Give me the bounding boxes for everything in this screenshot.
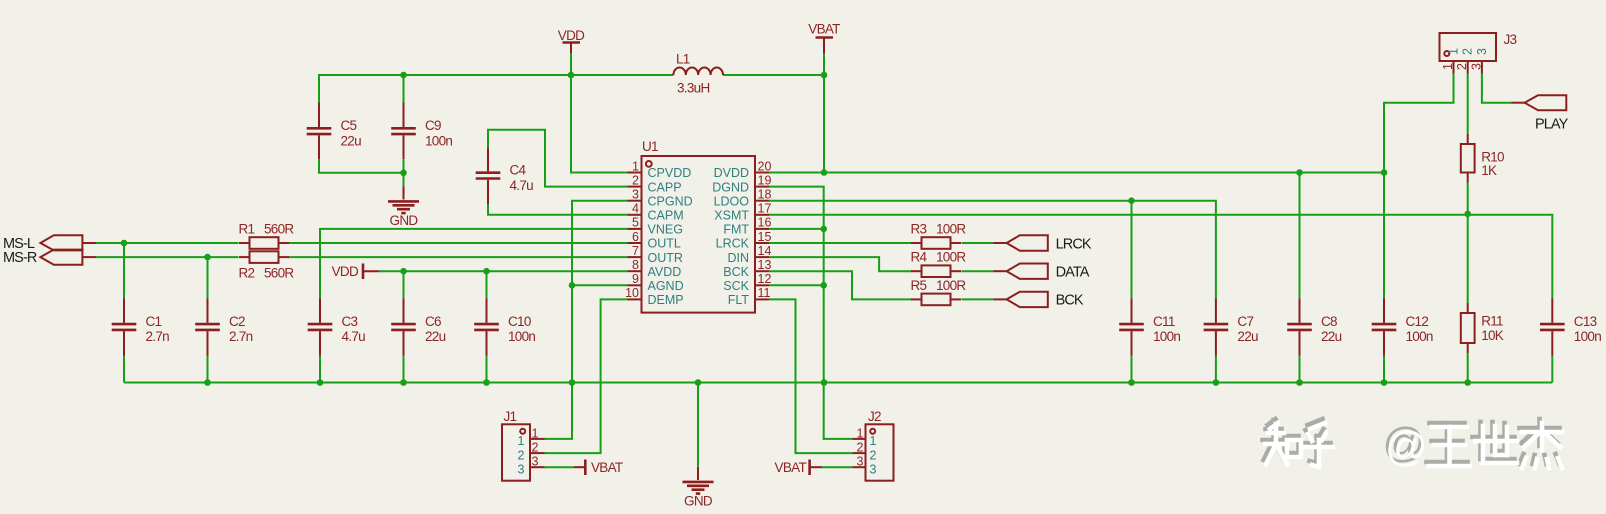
svg-text:1: 1 [857,426,864,440]
wire SCK pin 12 to ground vertical [769,284,824,286]
junction [568,72,575,79]
capacitor C13 100n [1540,299,1601,356]
svg-text:560R: 560R [264,221,294,236]
port PLAY output [1512,95,1569,132]
wire MS-R node down to C2 [207,257,209,298]
svg-text:XSMT: XSMT [714,209,749,223]
svg-text:C6: C6 [425,314,441,329]
wire C5 bottom to C9 bottom [319,160,404,173]
svg-text:DVDD: DVDD [714,166,749,180]
power flag VBAT at J2 [775,460,822,476]
svg-text:OUTR: OUTR [648,251,683,265]
svg-text:C12: C12 [1406,314,1429,329]
wire MS-L node down to C1 [123,243,125,299]
capacitor C1 2.7n [112,299,169,356]
junction [820,282,827,289]
junction [1464,211,1471,218]
wire BCK pin 13 to R5 [769,271,912,299]
svg-text:VNEG: VNEG [648,223,683,237]
svg-text:3.3uH: 3.3uH [677,81,710,96]
svg-text:8: 8 [632,258,639,272]
svg-text:C13: C13 [1574,314,1597,329]
wire R5 to BCK port [962,298,994,300]
svg-text:1: 1 [1447,48,1461,55]
op-amp U1 PCM5102 DAC IC [625,139,771,313]
junction [1128,197,1135,204]
capacitor C8 22u [1287,299,1341,356]
svg-text:BCK: BCK [723,265,749,279]
wire VBAT flag to J2 pin 3 [822,466,852,468]
wire XSMT pin 17 net to C13 [769,215,1552,299]
svg-text:17: 17 [758,202,772,216]
svg-text:1: 1 [532,426,539,440]
svg-text:3: 3 [857,455,864,469]
wire LDOO branch to C11 [1131,201,1133,299]
wire DGND pin 19 down to rail and J2 pin 1 [769,187,852,439]
connector J3 [1440,32,1517,74]
port MS-L input [3,235,96,252]
svg-text:3: 3 [518,463,525,477]
svg-text:DGND: DGND [712,180,749,194]
svg-text:FLT: FLT [728,293,750,307]
svg-text:R4: R4 [911,250,928,265]
svg-text:2: 2 [518,448,525,462]
wire C1 bottom to rail [123,356,125,383]
wire LDOO pin 18 to C11 C7 [769,201,1216,299]
wire MS-R port to R2 [96,256,239,258]
wire J3 pin 2 to R10 [1467,74,1469,135]
svg-text:2: 2 [1461,48,1475,55]
svg-text:CAPM: CAPM [648,209,684,223]
resistor R4 100R [911,250,967,277]
junction [1296,169,1303,176]
svg-text:PLAY: PLAY [1535,117,1569,133]
junction [204,254,211,261]
svg-text:LRCK: LRCK [1056,236,1092,252]
svg-text:VDD: VDD [332,264,359,279]
svg-text:1: 1 [870,434,877,448]
wire C10 bottom to rail [486,356,488,383]
svg-text:22u: 22u [425,329,446,344]
svg-text:1: 1 [1441,63,1455,70]
junction [400,170,407,177]
svg-text:FMT: FMT [723,223,749,237]
capacitor C4 4.7u [476,147,533,204]
svg-text:4.7u: 4.7u [342,329,366,344]
svg-text:2.7n: 2.7n [146,329,170,344]
wire DEMP pin 10 to J1 pin 2 [545,299,628,453]
junction [821,169,828,176]
svg-text:DEMP: DEMP [648,293,684,307]
wire J3 pin 1 to DVDD and C12 [1384,74,1454,299]
wire VDD flag stub [570,53,572,75]
svg-text:C1: C1 [146,314,162,329]
svg-text:R5: R5 [911,278,927,293]
svg-text:100R: 100R [936,250,966,265]
svg-text:3: 3 [870,463,877,477]
svg-text:C3: C3 [342,314,358,329]
svg-text:3: 3 [1475,48,1489,55]
ground symbol lower [683,467,714,509]
svg-text:560R: 560R [264,266,294,281]
wire AVDD to C6 top [403,271,405,298]
svg-text:R1: R1 [239,221,255,236]
wire J1 pin 3 to VBAT flag [545,466,575,468]
svg-text:11: 11 [758,286,771,300]
svg-text:3: 3 [632,188,639,202]
junction on ground rail [204,379,211,386]
svg-text:L1: L1 [676,52,690,67]
resistor R3 100R [911,221,967,248]
resistor R11 10K [1461,303,1504,353]
wire C7 bottom to rail [1215,356,1217,383]
svg-text:1K: 1K [1481,163,1497,178]
capacitor C7 22u [1204,299,1258,356]
svg-text:LRCK: LRCK [716,237,750,251]
port BCK output [994,298,1007,300]
wire R2 to OUTR pin 7 [289,256,628,258]
svg-text:100n: 100n [1153,329,1180,344]
svg-text:J3: J3 [1504,32,1517,47]
svg-text:J1: J1 [504,409,517,424]
junction on ground rail [1296,379,1303,386]
svg-text:22u: 22u [341,133,362,148]
junction on ground rail [695,379,702,386]
junction on ground rail [483,379,490,386]
svg-text:100n: 100n [425,133,452,148]
wire L1 to VBAT node [723,74,824,76]
svg-text:6: 6 [632,230,639,244]
svg-text:R11: R11 [1481,314,1503,329]
inductor L1 3.3uH [673,52,723,96]
svg-text:CAPP: CAPP [648,180,682,194]
svg-text:C2: C2 [229,314,245,329]
capacitor C5 22u [307,103,361,160]
resistor R5 100R [911,278,967,305]
junction [121,240,128,247]
junction on ground rail [569,379,576,386]
capacitor C2 2.7n [195,299,252,356]
resistor R2 560R [239,251,295,280]
svg-text:4.7u: 4.7u [510,178,534,193]
svg-text:10: 10 [625,286,639,300]
svg-text:10K: 10K [1481,328,1504,343]
capacitor C3 4.7u [308,299,365,356]
svg-text:19: 19 [758,173,772,187]
junction on ground rail [821,379,828,386]
port BCK pentagon [1007,292,1084,309]
connector J2 [852,409,893,481]
wire R11 bottom to rail [1467,353,1469,383]
svg-text:VBAT: VBAT [775,460,807,475]
svg-text:DATA: DATA [1056,265,1090,281]
svg-text:2: 2 [532,441,539,455]
port MS-R input [3,250,96,266]
svg-text:4: 4 [632,202,639,216]
wire VDD to CPVDD pin 1 [571,75,628,173]
svg-text:C5: C5 [341,118,357,133]
svg-text:2: 2 [870,448,877,462]
svg-text:100n: 100n [1574,329,1601,344]
connector J1 [502,409,545,481]
port DATA output [994,270,1007,272]
wire R4 to DATA port [962,270,994,272]
junction [400,268,407,275]
svg-text:BCK: BCK [1056,293,1084,309]
junction [400,72,407,79]
svg-text:22u: 22u [1321,329,1342,344]
svg-text:AVDD: AVDD [648,265,682,279]
wire CPGND pin 3 down to ground rail and J1 pin 1 [545,201,628,439]
svg-text:C10: C10 [508,314,531,329]
wire C4 top to CAPP pin 2 [488,130,628,187]
capacitor C6 22u [391,299,445,356]
svg-text:SCK: SCK [723,279,749,293]
wire C11 bottom to rail [1131,356,1133,383]
svg-text:7: 7 [632,244,639,258]
svg-text:U1: U1 [642,139,658,154]
svg-text:C11: C11 [1153,314,1175,329]
wire C6 bottom to rail [403,356,405,383]
svg-text:15: 15 [758,230,772,244]
capacitor C9 100n [391,103,452,160]
junction [569,282,576,289]
svg-text:C8: C8 [1321,314,1337,329]
svg-text:@: @ [1385,423,1428,470]
svg-text:14: 14 [758,244,772,258]
wire ground rail [124,382,1552,384]
wire C2 bottom to rail [207,356,209,383]
wire VDD top rail left of L1 [319,75,673,104]
wire rail to GND symbol stem [697,383,699,467]
svg-text:C4: C4 [510,163,527,178]
wire C9 bottom to GND symbol [403,160,405,186]
watermark Zhihu @WangShijie [1263,419,1563,470]
wire C3 bottom to rail [319,356,321,383]
svg-text:9: 9 [632,272,639,286]
svg-text:GND: GND [390,213,419,228]
junction [1381,169,1388,176]
svg-text:100n: 100n [1406,329,1433,344]
svg-text:3: 3 [532,455,539,469]
junction on ground rail [1381,379,1388,386]
junction on ground rail [1128,379,1135,386]
svg-text:100R: 100R [936,278,966,293]
svg-text:GND: GND [684,493,713,508]
junction on ground rail [317,379,324,386]
capacitor C12 100n [1372,299,1433,356]
svg-text:AGND: AGND [648,279,684,293]
svg-text:OUTL: OUTL [648,237,681,251]
svg-text:VBAT: VBAT [591,460,623,475]
power flag VBAT top [808,22,840,54]
junction on ground rail [1213,379,1220,386]
wire C3 to VNEG pin 5 [320,229,628,299]
wire C9 top stub [403,75,405,104]
wire R3 to LRCK port [962,242,994,244]
svg-text:LDOO: LDOO [714,194,750,208]
svg-text:MS-R: MS-R [3,250,37,266]
svg-text:2: 2 [632,173,639,187]
wire LRCK pin 15 to R3 [769,242,912,244]
svg-text:13: 13 [758,258,772,272]
svg-text:DIN: DIN [727,251,749,265]
svg-text:16: 16 [758,216,772,230]
wire AGND pin 9 branch [572,284,628,286]
port LRCK output [994,242,1007,244]
svg-text:100R: 100R [936,221,966,236]
wire C13 bottom to rail end [1551,356,1553,383]
wire AVDD to C10 top [486,271,488,298]
svg-text:CPGND: CPGND [648,194,693,208]
power flag VDD left (AVDD) [332,264,380,280]
svg-text:J2: J2 [868,409,881,424]
svg-text:C7: C7 [1237,314,1253,329]
wire J3 pin 3 to PLAY port [1482,74,1512,103]
wire DIN pin 14 to R4 [769,257,912,271]
resistor R1 560R [239,221,295,248]
svg-text:R2: R2 [239,266,255,281]
wire DVDD to C8 top [1299,173,1301,299]
svg-text:2: 2 [857,441,864,455]
svg-text:100n: 100n [508,329,535,344]
capacitor C10 100n [474,299,535,356]
svg-text:2: 2 [1455,63,1469,70]
svg-text:3: 3 [1469,63,1483,70]
svg-text:VDD: VDD [558,28,585,43]
junction [483,268,490,275]
wire FLT pin 11 to J2 pin 2 [769,299,852,453]
wire VBAT vertical [823,53,825,173]
junction on ground rail [400,379,407,386]
junction [820,226,827,233]
power flag VBAT at J1 [574,460,623,476]
wire MS-L port to R1 [96,242,239,244]
svg-text:20: 20 [758,159,772,173]
svg-text:12: 12 [758,272,772,286]
ground symbol upper (C5 C9) [388,186,419,228]
capacitor C11 100n [1119,299,1180,356]
svg-text:CPVDD: CPVDD [648,166,692,180]
svg-text:C9: C9 [425,118,441,133]
svg-text:18: 18 [758,188,772,202]
svg-text:5: 5 [632,216,639,230]
wire C8 bottom to rail [1299,356,1301,383]
svg-text:1: 1 [518,434,525,448]
wire VDD flag to AVDD pin 8 [379,270,627,272]
junction [821,72,828,79]
resistor R10 1K [1461,134,1504,183]
power flag VDD top [558,28,585,53]
svg-text:2.7n: 2.7n [229,329,253,344]
port DATA pentagon [1007,264,1090,281]
svg-text:VBAT: VBAT [808,22,840,37]
wire C4 bottom to CAPM pin 4 [488,204,628,215]
port LRCK pentagon [1007,235,1092,252]
wire R10 to XSMT node and R11 [1467,183,1469,304]
svg-text:1: 1 [632,159,639,173]
svg-text:R3: R3 [911,221,927,236]
wire FMT pin 16 to ground vertical [769,228,824,230]
wire R1 to OUTL pin 6 [289,242,628,244]
wire C12 bottom to rail [1383,356,1385,383]
wire DVDD pin 20 net [769,172,1384,174]
svg-text:22u: 22u [1237,329,1258,344]
junction on ground rail [1464,379,1471,386]
